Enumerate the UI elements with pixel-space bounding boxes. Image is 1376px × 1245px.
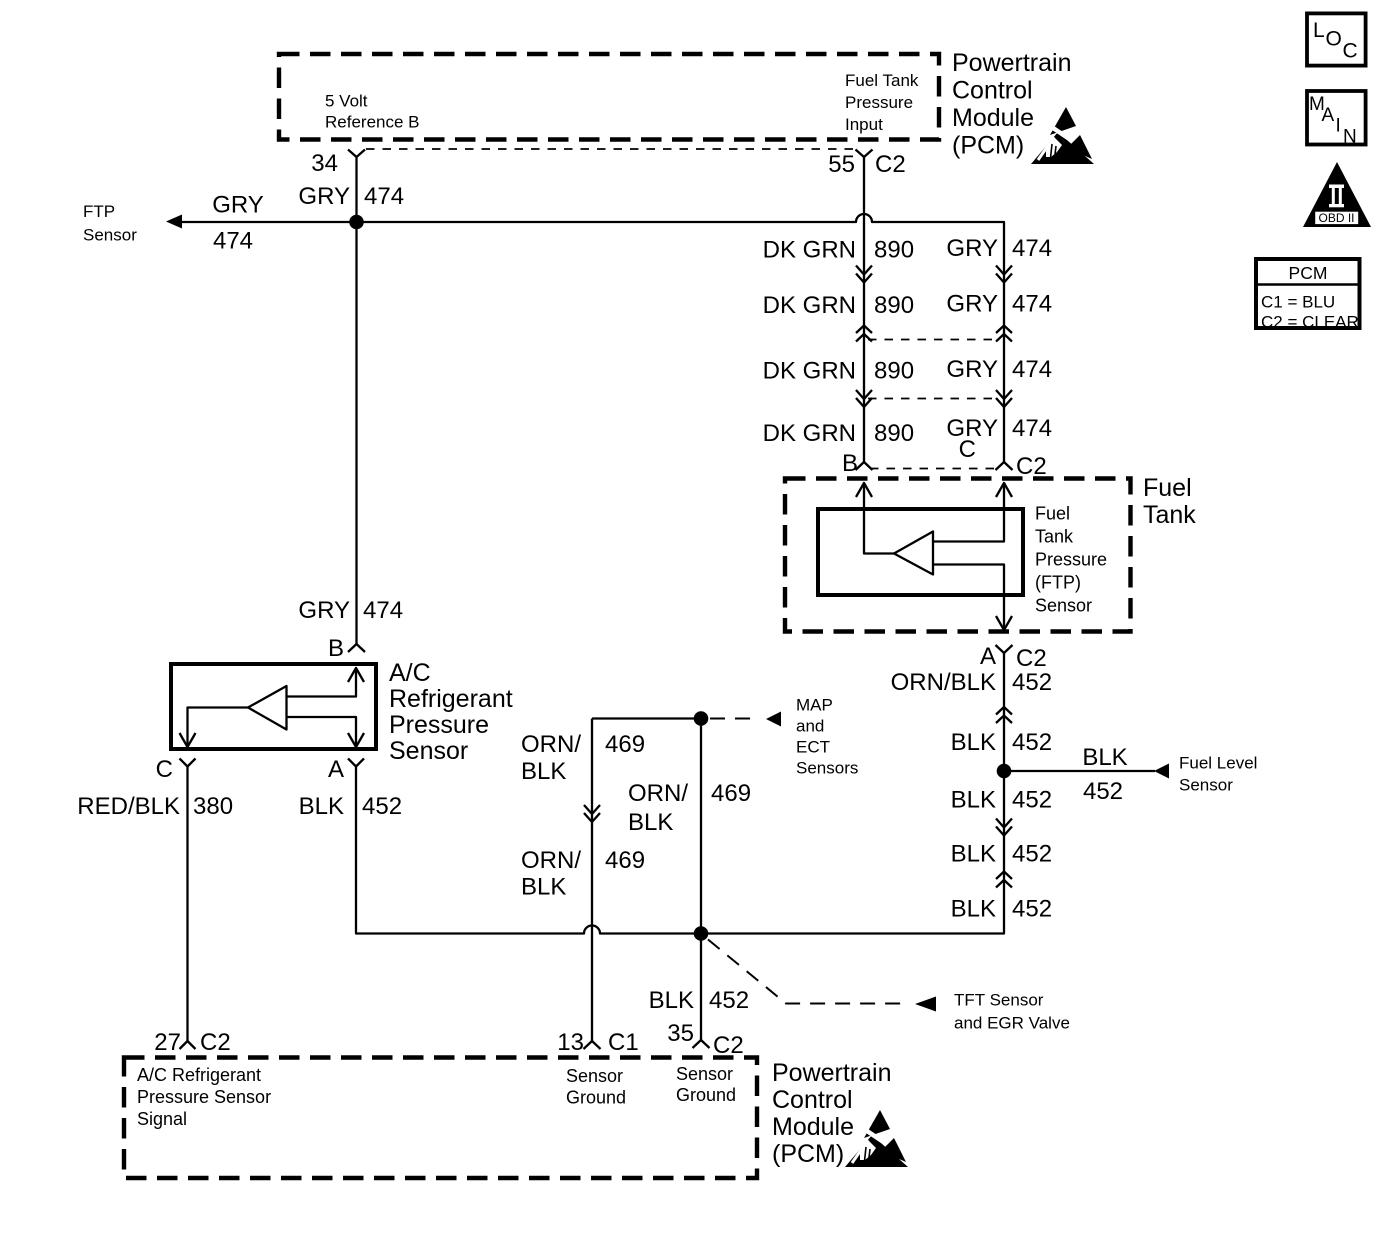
label DK GRN 890 row 2	[763, 292, 914, 319]
svg-text:GRY: GRY	[946, 356, 998, 383]
FTP amplifier triangle	[894, 532, 933, 575]
label Sensor Ground pin 13	[566, 1066, 626, 1108]
svg-text:Sensor: Sensor	[1179, 776, 1233, 795]
connector dashed tie line 2	[868, 339, 1000, 341]
svg-text:Fuel: Fuel	[1143, 474, 1192, 502]
inline connector pair ORN/BLK down	[584, 805, 600, 822]
svg-text:BLK: BLK	[951, 729, 996, 756]
pin letter B fuel tank	[842, 450, 858, 477]
svg-text:890: 890	[874, 292, 914, 319]
label DK GRN 890 row 4	[763, 420, 914, 447]
pin letter C A/C	[156, 756, 173, 783]
svg-text:474: 474	[1012, 291, 1052, 318]
svg-text:469: 469	[605, 731, 645, 758]
svg-text:BLK: BLK	[649, 987, 694, 1014]
svg-text:A: A	[1322, 105, 1335, 126]
inline connector pair DK GRN 3	[856, 390, 872, 407]
pin 13 connector Y	[584, 1041, 601, 1049]
svg-text:BLK: BLK	[299, 793, 344, 820]
svg-text:Fuel Level: Fuel Level	[1179, 754, 1257, 773]
pin 34 label	[311, 150, 338, 177]
Powertrain Control Module (PCM) title top	[952, 49, 1072, 160]
FTP internal wire C input	[933, 483, 1004, 542]
label C2 at pin A	[1016, 645, 1047, 672]
svg-text:FTP: FTP	[83, 202, 115, 221]
svg-text:Ground: Ground	[676, 1085, 736, 1105]
svg-text:Powertrain: Powertrain	[772, 1059, 892, 1087]
svg-text:Control: Control	[952, 77, 1033, 105]
label MAP and ECT Sensors	[796, 696, 858, 778]
label Fuel Tank Pressure (FTP) Sensor	[1035, 504, 1107, 616]
label GRY 474 row 4	[946, 415, 1052, 442]
wire DK GRN pin 55 down to fuel tank	[863, 157, 865, 462]
svg-text:Pressure: Pressure	[389, 711, 489, 739]
svg-text:ORN/: ORN/	[521, 731, 581, 758]
svg-text:TFT Sensor: TFT Sensor	[954, 991, 1044, 1010]
svg-text:469: 469	[605, 847, 645, 874]
svg-text:A: A	[328, 756, 344, 783]
off-page arrow fuel level sensor	[1154, 764, 1169, 779]
pin 27 connector Y	[180, 1041, 196, 1049]
A/C internal wire A	[287, 717, 357, 747]
off-page arrow MAP and ECT	[766, 712, 781, 727]
svg-text:C2 = CLEAR: C2 = CLEAR	[1261, 313, 1359, 332]
svg-text:474: 474	[1012, 415, 1052, 442]
svg-text:BLK: BLK	[951, 787, 996, 814]
svg-text:55: 55	[828, 151, 855, 178]
svg-text:474: 474	[1012, 356, 1052, 383]
svg-text:I: I	[1336, 116, 1341, 137]
wire ORN/BLK left vertical to pin 13	[591, 719, 593, 1042]
label GRY 474 left branch	[212, 192, 264, 255]
label BLK 452 row 3	[951, 841, 1052, 868]
svg-text:Reference B: Reference B	[325, 113, 420, 132]
svg-text:Pressure: Pressure	[1035, 550, 1107, 570]
down arrow A/C C	[180, 733, 196, 747]
junction dot fuel level	[997, 764, 1012, 779]
ESD warning symbol bottom	[845, 1110, 912, 1167]
label TFT Sensor and EGR Valve	[954, 991, 1070, 1033]
svg-text:452: 452	[709, 987, 749, 1014]
pin 27 label	[154, 1029, 230, 1056]
pin letter A fuel tank	[980, 643, 996, 670]
OBD II symbol	[1303, 162, 1371, 227]
svg-text:34: 34	[311, 150, 338, 177]
connector face C2 thin dashed line	[366, 148, 856, 150]
svg-text:474: 474	[213, 228, 253, 255]
svg-text:380: 380	[193, 793, 233, 820]
svg-text:A/C: A/C	[389, 659, 431, 687]
inline connector pair DK GRN 2	[856, 326, 872, 342]
label BLK 452 row 4	[951, 896, 1052, 923]
svg-text:O: O	[1326, 28, 1342, 51]
svg-text:Sensor: Sensor	[389, 737, 468, 765]
svg-text:BLK: BLK	[521, 874, 566, 901]
svg-text:C: C	[959, 436, 976, 463]
svg-text:BLK: BLK	[521, 758, 566, 785]
svg-text:N: N	[1343, 127, 1357, 148]
svg-text:BLK: BLK	[1082, 744, 1127, 771]
svg-text:C1: C1	[608, 1029, 639, 1056]
label BLK 452 at pin 35	[649, 987, 749, 1014]
A/C internal wire B input	[287, 668, 357, 697]
up arrow fuel tank B	[856, 483, 872, 497]
svg-text:Powertrain: Powertrain	[952, 49, 1072, 77]
label Fuel Tank Pressure Input	[845, 71, 919, 134]
svg-text:C2: C2	[1016, 453, 1047, 480]
svg-text:GRY: GRY	[946, 291, 998, 318]
A/C pin C connector Y	[180, 759, 196, 767]
svg-text:474: 474	[1012, 235, 1052, 262]
label C2 fuel tank	[1016, 453, 1047, 480]
svg-text:(PCM): (PCM)	[952, 132, 1024, 160]
wire GRY main vertical to A/C sensor	[355, 222, 357, 644]
svg-text:Fuel Tank: Fuel Tank	[845, 71, 919, 90]
svg-text:890: 890	[874, 237, 914, 264]
inline connector pair DK GRN 1	[856, 266, 872, 283]
fuel tank pin B connector Y	[856, 462, 873, 470]
svg-text:474: 474	[363, 597, 403, 624]
fuel tank connector face thin dashed line	[870, 468, 998, 470]
pin 55 connector Y	[856, 150, 873, 158]
svg-text:and EGR Valve: and EGR Valve	[954, 1014, 1070, 1033]
label BLK 452 at A/C pin A	[299, 793, 402, 820]
svg-text:(FTP): (FTP)	[1035, 573, 1081, 593]
svg-text:L: L	[1313, 19, 1325, 42]
A/C Refrigerant Pressure Sensor box U2	[171, 664, 376, 749]
label FTP Sensor	[83, 202, 137, 245]
svg-text:DK GRN: DK GRN	[763, 358, 856, 385]
svg-text:ECT: ECT	[796, 738, 830, 757]
svg-text:890: 890	[874, 420, 914, 447]
svg-text:Sensor: Sensor	[83, 226, 137, 245]
pin 13 label	[557, 1029, 638, 1056]
svg-text:Module: Module	[952, 104, 1034, 132]
svg-text:452: 452	[1012, 841, 1052, 868]
pin letter C fuel tank	[959, 436, 976, 463]
svg-text:GRY: GRY	[212, 192, 264, 219]
svg-text:C2: C2	[200, 1029, 231, 1056]
down arrow fuel tank A	[996, 616, 1012, 630]
svg-text:C2: C2	[1016, 645, 1047, 672]
svg-text:Tank: Tank	[1143, 501, 1196, 529]
svg-text:C1 = BLU: C1 = BLU	[1261, 293, 1335, 312]
pin letter B A/C	[328, 635, 344, 662]
junction dot bus	[694, 926, 709, 941]
svg-text:452: 452	[362, 793, 402, 820]
svg-text:35: 35	[667, 1020, 694, 1047]
connector dashed tie line 3	[868, 398, 1000, 400]
dashed wire to TFT and EGR	[708, 940, 904, 1004]
svg-text:MAP: MAP	[796, 696, 833, 715]
svg-text:C2: C2	[875, 151, 906, 178]
svg-text:B: B	[328, 635, 344, 662]
fuel tank pin A connector Y	[996, 645, 1013, 653]
svg-text:Signal: Signal	[137, 1109, 187, 1129]
FTP sensor box U1	[818, 509, 1023, 595]
svg-text:ORN/BLK: ORN/BLK	[891, 669, 996, 696]
svg-text:27: 27	[154, 1029, 181, 1056]
label BLK 452 fuel level branch	[1082, 744, 1127, 805]
inline connector pair BLK up 1	[996, 707, 1012, 723]
label A/C Refrigerant Pressure Sensor Signal	[137, 1065, 271, 1129]
label ORN/BLK 469 lower left	[521, 847, 645, 901]
label Fuel Level Sensor	[1179, 754, 1257, 795]
svg-text:Fuel: Fuel	[1035, 504, 1070, 524]
wire main horizontal GRY with hop over DK GRN, corner down	[181, 214, 1004, 462]
pin 35 connector Y	[693, 1040, 710, 1048]
svg-text:C2: C2	[713, 1032, 744, 1059]
wire BLK 452 bus with hop over pin 13 wire	[356, 653, 1004, 934]
svg-text:ORN/: ORN/	[521, 847, 581, 874]
svg-text:474: 474	[364, 183, 404, 210]
Fuel Tank dashed box	[785, 479, 1131, 632]
label ORN/BLK 452	[891, 669, 1052, 696]
svg-text:452: 452	[1012, 787, 1052, 814]
svg-text:OBD II: OBD II	[1318, 211, 1354, 225]
inline connector pair BLK up 2	[996, 872, 1012, 888]
svg-text:BLK: BLK	[951, 841, 996, 868]
PCM top connector dashed box	[279, 54, 939, 140]
svg-text:13: 13	[557, 1029, 584, 1056]
svg-text:and: and	[796, 717, 824, 736]
svg-text:Tank: Tank	[1035, 527, 1074, 547]
svg-text:RED/BLK: RED/BLK	[77, 793, 180, 820]
pin 55 label	[828, 151, 905, 178]
svg-text:5 Volt: 5 Volt	[325, 92, 368, 111]
svg-text:A/C Refrigerant: A/C Refrigerant	[137, 1065, 261, 1085]
label BLK 452 row 1	[951, 729, 1052, 756]
svg-text:GRY: GRY	[946, 235, 998, 262]
svg-text:Sensors: Sensors	[796, 759, 858, 778]
arrow to FTP sensor	[166, 215, 182, 229]
wire ORN/BLK top horizontal	[592, 717, 701, 719]
pin 34 connector Y	[348, 150, 365, 158]
up arrow A/C B	[348, 668, 364, 682]
inline connector pair GRY 2	[996, 326, 1012, 342]
svg-text:DK GRN: DK GRN	[763, 292, 856, 319]
junction dot node GRY	[349, 215, 364, 230]
svg-text:BLK: BLK	[951, 896, 996, 923]
inline connector pair GRY 3	[996, 390, 1012, 407]
svg-text:Pressure: Pressure	[845, 93, 913, 112]
label DK GRN 890 row 1	[763, 237, 914, 264]
label BLK 452 row 2	[951, 787, 1052, 814]
svg-text:Ground: Ground	[566, 1088, 626, 1108]
label A/C Refrigerant Pressure Sensor	[389, 659, 513, 765]
wire pin 34 down	[355, 157, 357, 222]
off-page arrow TFT and EGR	[915, 997, 936, 1012]
Powertrain Control Module (PCM) title bottom	[772, 1059, 892, 1168]
svg-text:B: B	[842, 450, 858, 477]
svg-text:Sensor: Sensor	[566, 1066, 623, 1086]
A/C pin B connector Y	[348, 644, 365, 652]
PCM bottom connector dashed box	[124, 1058, 757, 1179]
svg-text:BLK: BLK	[628, 809, 673, 836]
pin 35 label	[667, 1020, 743, 1059]
svg-text:Input: Input	[845, 115, 883, 134]
FTP internal wire B to amp output	[864, 483, 894, 554]
svg-text:A: A	[980, 643, 996, 670]
svg-text:(PCM): (PCM)	[772, 1140, 844, 1168]
MAIN legend box	[1307, 91, 1366, 148]
label ORN/BLK 469 upper left	[521, 731, 645, 785]
svg-text:Sensor: Sensor	[1035, 596, 1092, 616]
svg-text:ORN/: ORN/	[628, 780, 688, 807]
pin letter A A/C	[328, 756, 344, 783]
svg-text:469: 469	[711, 780, 751, 807]
svg-text:Module: Module	[772, 1113, 854, 1141]
label GRY 474 above A/C	[298, 597, 403, 624]
inline connector pair BLK down	[996, 819, 1012, 836]
svg-text:DK GRN: DK GRN	[763, 237, 856, 264]
wire ORN/BLK right vertical to pin 35	[700, 719, 702, 1041]
svg-text:GRY: GRY	[298, 597, 350, 624]
svg-text:GRY: GRY	[298, 183, 350, 210]
svg-text:890: 890	[874, 358, 914, 385]
PCM connector color legend box	[1256, 259, 1360, 332]
label ORN/BLK 469 middle	[628, 780, 751, 836]
label RED/BLK 380	[77, 793, 233, 820]
svg-text:452: 452	[1012, 896, 1052, 923]
dashed wire to MAP and ECT	[710, 718, 760, 720]
A/C amplifier triangle	[248, 686, 287, 730]
label GRY 474 row 3	[946, 356, 1052, 383]
label DK GRN 890 row 3	[763, 358, 914, 385]
svg-text:Refrigerant: Refrigerant	[389, 685, 513, 713]
A/C pin A connector Y	[348, 759, 364, 767]
wire RED/BLK down to pin 27	[186, 767, 188, 1042]
label GRY 474 row 2	[946, 291, 1052, 318]
down arrow A/C A	[348, 733, 364, 747]
junction dot MAP branch	[694, 711, 709, 726]
inline connector pair GRY 1	[996, 266, 1012, 283]
Fuel Tank title	[1143, 474, 1196, 529]
wire fuel level branch	[1004, 770, 1155, 772]
svg-text:452: 452	[1012, 669, 1052, 696]
fuel tank pin C connector Y	[996, 462, 1013, 470]
svg-text:DK GRN: DK GRN	[763, 420, 856, 447]
svg-text:Control: Control	[772, 1086, 853, 1114]
svg-text:C: C	[1343, 40, 1358, 63]
svg-text:C: C	[156, 756, 173, 783]
svg-text:PCM: PCM	[1289, 263, 1328, 283]
svg-text:Pressure Sensor: Pressure Sensor	[137, 1087, 271, 1107]
label GRY 474 at pin 34	[298, 183, 404, 210]
svg-text:452: 452	[1083, 778, 1123, 805]
label GRY 474 row 1	[946, 235, 1052, 262]
svg-text:452: 452	[1012, 729, 1052, 756]
ESD warning symbol top	[1031, 107, 1098, 164]
LOC legend box	[1307, 13, 1366, 65]
label Sensor Ground pin 35	[676, 1064, 736, 1105]
label 5 Volt Reference B	[325, 92, 420, 132]
svg-text:Sensor: Sensor	[676, 1064, 733, 1084]
A/C internal wire C output	[188, 708, 249, 748]
up arrow fuel tank C	[996, 483, 1012, 497]
FTP internal wire output down	[933, 565, 1004, 631]
